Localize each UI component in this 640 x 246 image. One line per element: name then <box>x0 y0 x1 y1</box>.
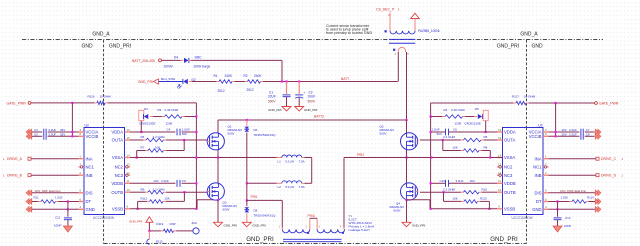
svg-text:10: 10 <box>498 188 502 192</box>
plane split border right (vertical dashed line) <box>526 40 528 244</box>
svg-text:15: 15 <box>498 136 502 140</box>
svg-text:D8: D8 <box>254 209 258 213</box>
ground GND_PRI under C1 <box>268 107 291 112</box>
wire VDDA row <box>130 131 175 133</box>
svg-text:D3: D3 <box>144 107 148 111</box>
svg-text:R3: R3 <box>158 108 162 112</box>
resistor R8 10K <box>453 146 488 153</box>
note dead time left <box>35 189 61 193</box>
svg-text:GND_PRI: GND_PRI <box>224 223 238 227</box>
svg-text:1206: 1206 <box>166 122 173 126</box>
wire R8 to PRI2 <box>482 151 491 158</box>
wire VCC drop right <box>555 103 557 136</box>
svg-text:OUTA: OUTA <box>112 138 124 143</box>
flag GND right <box>595 206 601 212</box>
svg-text:C3: C3 <box>34 128 38 132</box>
svg-text:R112: R112 <box>141 197 148 201</box>
svg-text:C11: C11 <box>55 215 61 219</box>
resistor R2 240K <box>244 74 264 92</box>
svg-text:GND_A: GND_A <box>520 32 538 38</box>
svg-text:VCCIB: VCCIB <box>529 134 542 139</box>
diode D5 C4D02120E <box>465 107 489 126</box>
transformer T1 core <box>283 239 342 241</box>
svg-text:GND: GND <box>532 207 541 212</box>
wire OUTB to R9 <box>130 191 145 193</box>
flag DIS left <box>26 190 32 196</box>
wire VDDA row right <box>431 131 497 133</box>
svg-text:L2: L2 <box>278 185 282 189</box>
wire D5 to VDDA right <box>485 121 487 132</box>
svg-text:3.3UF: 3.3UF <box>161 179 169 183</box>
svg-text:10NF: 10NF <box>564 224 572 228</box>
svg-text:1.02K: 1.02K <box>55 196 63 200</box>
resistor R6 2.2 OHM <box>141 135 167 142</box>
wire gate node D to R113 <box>444 192 462 201</box>
svg-text:PRI1: PRI1 <box>251 195 258 199</box>
svg-text:R115: R115 <box>156 240 163 244</box>
svg-text:GND_PRI: GND_PRI <box>246 236 274 243</box>
junction gate node D <box>442 191 444 193</box>
svg-text:3.3UF: 3.3UF <box>569 133 577 137</box>
capacitor C12 10NF <box>554 202 572 229</box>
wire R4 to D5 <box>465 116 477 118</box>
wire R113 to VSSB right <box>480 201 489 208</box>
svg-text:5.1UH: 5.1UH <box>286 185 295 189</box>
junction GND-C12 <box>556 208 558 210</box>
svg-text:22UF: 22UF <box>268 94 276 98</box>
svg-text:10: 10 <box>127 188 131 192</box>
wire R114 to DT flag <box>589 201 596 203</box>
svg-text:NC1: NC1 <box>86 165 95 170</box>
port DRIVE_C <box>596 157 624 161</box>
svg-text:GATE_PWR: GATE_PWR <box>599 102 619 106</box>
transformer T1 primary right pin <box>340 225 344 229</box>
transformer T1 center tap PRI3 <box>306 214 321 229</box>
junction VSSB-drop right <box>430 208 432 210</box>
junction gate node B <box>183 191 185 193</box>
svg-text:600V: 600V <box>380 131 387 135</box>
wire DRIVE_B to INB <box>31 174 79 176</box>
node GND_PRI label left <box>109 44 131 50</box>
wire PRI1 <box>247 200 282 227</box>
wire R5 to Q2 gate <box>420 139 461 141</box>
svg-text:2.2 OHM: 2.2 OHM <box>153 135 166 139</box>
transistor Q3 <box>207 183 237 211</box>
svg-text:35V: 35V <box>60 128 65 132</box>
junction VCCIB right <box>555 135 557 137</box>
port GATE_PWR left <box>7 102 31 106</box>
wire R1 to R2 <box>235 81 245 83</box>
wire D8 to ground <box>246 213 248 222</box>
junction R113-VSSB <box>488 208 490 210</box>
note current sense transformer <box>326 24 372 35</box>
svg-text:VDDA: VDDA <box>504 130 516 135</box>
junction R8-PRI2 <box>489 156 491 158</box>
wire GND_PRI flag to D2 (blue lead) <box>159 77 184 81</box>
wire CS secondary left lead <box>389 13 391 31</box>
flag VCCIA right <box>595 129 601 135</box>
junction gate node C <box>442 139 444 141</box>
plane split border left (vertical dashed line) <box>103 40 105 244</box>
junction DT-C11 <box>67 200 69 202</box>
svg-text:2.49 OHM: 2.49 OHM <box>451 108 465 112</box>
svg-text:2.2 OHM: 2.2 OHM <box>443 187 456 191</box>
wire C9 to drop <box>182 182 197 184</box>
wire flag to R119 <box>149 230 161 232</box>
svg-text:NC3: NC3 <box>504 173 513 178</box>
wire DT flag stub <box>32 201 39 203</box>
op-amp U2 gate driver IC <box>79 123 131 220</box>
wire Q4 source to ground <box>406 200 408 222</box>
svg-text:R119: R119 <box>157 222 164 226</box>
svg-text:R114: R114 <box>587 196 594 200</box>
junction GATE_PWR VCC tap left <box>71 102 73 104</box>
svg-text:600V: 600V <box>228 132 235 136</box>
svg-text:20V: 20V <box>562 133 567 137</box>
svg-text:DRIVE_A: DRIVE_A <box>7 157 23 161</box>
svg-text:C10: C10 <box>440 179 446 183</box>
svg-text:R113: R113 <box>480 197 487 201</box>
junction C1 tap <box>285 80 287 82</box>
svg-text:D4: D4 <box>174 56 178 60</box>
power flag up CS secondary right <box>411 13 420 18</box>
junction BATT2-D6 <box>246 119 248 121</box>
wire INA right <box>549 158 597 160</box>
resistor R3 2.49 OHM <box>158 108 185 125</box>
svg-text:2512: 2512 <box>218 89 225 93</box>
svg-text:DRIVE_D: DRIVE_D <box>601 174 617 178</box>
wire PRI2 row <box>344 157 503 159</box>
wire CS secondary right lead <box>414 19 416 31</box>
wire gate node C to R8 <box>443 140 461 151</box>
ground GND_PRI under C2 <box>295 107 318 112</box>
svg-text:500V: 500V <box>268 99 276 103</box>
svg-text:DRIVE_C: DRIVE_C <box>601 157 617 161</box>
svg-text:GND_PRI: GND_PRI <box>268 108 282 112</box>
junction GATE_PWR VCC tap right <box>555 102 557 104</box>
wire VSSA row left of L1 <box>218 157 277 159</box>
plane split dashes over U3 <box>526 128 528 215</box>
flag DT left <box>26 199 32 205</box>
wire VSSB up to Q3 source <box>197 200 218 209</box>
svg-text:DT: DT <box>86 199 92 204</box>
port DRIVE_D <box>596 174 624 178</box>
svg-text:11: 11 <box>498 179 501 183</box>
junction D5-VDDA <box>485 131 487 133</box>
svg-text:16: 16 <box>127 128 131 132</box>
svg-text:GND: GND <box>531 44 543 50</box>
svg-text:ZH2: ZH2 <box>192 221 198 225</box>
node GND_PRI label right <box>497 44 519 50</box>
resistor R117 10 OHM <box>512 95 536 105</box>
wire R10 to Q4 gate <box>420 191 461 193</box>
svg-text:Leakage 5.2uH: Leakage 5.2uH <box>349 228 370 232</box>
svg-text:50V: 50V <box>437 132 442 136</box>
junction BATT-D4 <box>281 80 283 82</box>
wire GATE_PWR right segment <box>431 102 514 104</box>
wire VSSB row right <box>430 208 497 210</box>
svg-text:BATT_208-405: BATT_208-405 <box>132 59 155 63</box>
wire DT right stub <box>549 201 570 203</box>
svg-text:2.2 OHM: 2.2 OHM <box>153 187 166 191</box>
flag DIS right <box>595 190 601 196</box>
wire DIS left <box>32 192 79 194</box>
svg-text:1206: 1206 <box>455 122 462 126</box>
wire R119 to jumper <box>176 230 193 232</box>
svg-text:50V: 50V <box>182 132 187 136</box>
capacitor C2 10UF polarized <box>295 82 316 107</box>
svg-text:16V: 16V <box>154 179 159 183</box>
wire CS primary right leg <box>406 52 408 120</box>
capacitor C3 3.3UF <box>32 128 79 140</box>
svg-text:INA: INA <box>535 156 542 161</box>
wire gate node B to R112 <box>166 192 185 201</box>
wire BATT to D4 <box>162 59 184 61</box>
svg-text:R1: R1 <box>214 74 218 78</box>
svg-text:UCC21520DW: UCC21520DW <box>93 216 114 220</box>
svg-text:BATT: BATT <box>341 77 349 81</box>
svg-text:14: 14 <box>127 153 131 157</box>
svg-text:from primary to control GND: from primary to control GND <box>326 31 372 35</box>
junction R4 node <box>430 115 432 117</box>
transistor Q4 <box>390 183 418 213</box>
svg-text:R10: R10 <box>482 187 488 191</box>
wire D3 to R3 <box>150 116 162 118</box>
svg-text:240K: 240K <box>225 74 233 78</box>
svg-text:10 OHM: 10 OHM <box>524 95 536 99</box>
svg-text:OUTA: OUTA <box>504 138 516 143</box>
transistor Q2 <box>380 120 418 150</box>
wire VDDB row <box>130 182 175 184</box>
svg-text:600V: 600V <box>394 209 401 213</box>
svg-text:10K: 10K <box>155 146 160 150</box>
port GATE_PWR right <box>595 102 619 106</box>
node CS_SEC_P label <box>376 8 400 18</box>
svg-text:VSSA: VSSA <box>112 155 123 160</box>
resistor R9 2.2 OHM <box>141 187 167 194</box>
svg-text:DNP: DNP <box>170 222 176 226</box>
wire D3 to VDDA <box>140 121 142 132</box>
svg-text:500V: 500V <box>308 99 316 103</box>
wire VCC drop left <box>71 103 73 136</box>
svg-text:7.5A: 7.5A <box>299 159 305 163</box>
port BATT_208-405 <box>132 59 162 63</box>
diode D6 TVS <box>245 127 277 138</box>
wire D4 to BATT node <box>188 60 282 81</box>
capacitor C9 3.3UF 16V <box>154 179 186 187</box>
svg-text:14: 14 <box>498 153 502 157</box>
junction C2 tap <box>298 80 300 82</box>
resistor R112 10K <box>141 197 170 204</box>
inductor L1 5.1UH <box>218 155 305 163</box>
wire CS primary left leg <box>397 52 399 82</box>
svg-text:DIS: DIS <box>535 190 542 195</box>
capacitor C11 10NF <box>54 202 72 228</box>
svg-text:10K: 10K <box>453 197 458 201</box>
capacitor C4 1.0UF <box>167 128 191 137</box>
svg-text:BLU_5452: BLU_5452 <box>161 77 176 81</box>
diode D8 TVS <box>245 200 277 217</box>
svg-text:10K: 10K <box>165 197 170 201</box>
svg-text:VDDB: VDDB <box>111 181 123 186</box>
svg-text:GND_PRI: GND_PRI <box>129 219 143 223</box>
resistor R4 2.49 OHM <box>442 108 465 125</box>
wire VSSB right up to Q4 source <box>407 200 431 209</box>
transformer TX1 primary winding (U loop) <box>393 47 409 56</box>
svg-text:C6: C6 <box>34 133 38 137</box>
wire drop to R4 <box>431 116 443 118</box>
svg-text:UCC21520DW: UCC21520DW <box>512 216 533 220</box>
svg-text:NC2: NC2 <box>115 165 124 170</box>
ground GND_PRI under Q3 <box>214 222 238 227</box>
junction R119 <box>148 230 150 232</box>
junction C6 node <box>430 131 432 133</box>
wire GATE_PWR drop to VSSB <box>195 103 197 209</box>
svg-text:INA: INA <box>86 156 93 161</box>
svg-text:VSSB: VSSB <box>112 206 123 211</box>
capacitor C1 22UF <box>268 82 291 107</box>
svg-text:10K: 10K <box>453 146 458 150</box>
svg-text:1.02K: 1.02K <box>561 196 569 200</box>
wire INB right <box>549 174 597 176</box>
svg-text:TRS5V540F,61Q: TRS5V540F,61Q <box>254 133 277 137</box>
junction Q4 source node <box>405 199 407 201</box>
wire GND left <box>32 208 79 210</box>
svg-text:TRS5V540F,61Q: TRS5V540F,61Q <box>254 214 277 218</box>
resistor R5 2.2 OHM <box>443 135 488 142</box>
flag GND left <box>26 206 32 212</box>
wire D6 to L2 node <box>246 133 248 201</box>
svg-text:PRI3: PRI3 <box>308 214 315 218</box>
flag VCCIA left <box>26 129 32 135</box>
wire D2 to R1 <box>189 81 217 83</box>
wire C4 to drop <box>182 131 197 133</box>
resistor R119 DNP <box>157 222 177 232</box>
svg-text:INB: INB <box>535 173 542 178</box>
GND_A plane split border (top dash-dot line) <box>22 39 603 41</box>
junction VCCIA tap <box>71 131 73 133</box>
svg-text:U2: U2 <box>85 123 89 127</box>
svg-text:C8: C8 <box>586 133 590 137</box>
svg-text:GND_PRI: GND_PRI <box>497 44 519 50</box>
note dead time right <box>560 189 586 193</box>
wire BATT2 rail <box>218 119 407 121</box>
resistor R114 1.02K <box>561 196 595 204</box>
svg-text:3.3UF: 3.3UF <box>569 128 577 132</box>
jumper ZH2 <box>192 221 200 234</box>
transformer TX1 value label <box>418 29 440 33</box>
svg-text:DIS: DIS <box>86 190 93 195</box>
diode D4 <box>164 56 211 69</box>
junction PRI1 node <box>246 199 248 201</box>
wire GATE_PWR to terminal <box>529 102 595 104</box>
svg-text:7.5A: 7.5A <box>299 185 305 189</box>
svg-text:11: 11 <box>127 179 130 183</box>
junction C4 node <box>195 131 197 133</box>
svg-text:GND_PRI: GND_PRI <box>109 44 131 50</box>
svg-text:VDDA: VDDA <box>111 130 123 135</box>
svg-text:VDDB: VDDB <box>504 181 516 186</box>
svg-text:R5: R5 <box>484 135 488 139</box>
svg-text:GND: GND <box>81 44 93 50</box>
svg-text:240K: 240K <box>254 74 262 78</box>
ground filled under C12 <box>553 226 562 232</box>
svg-text:D6: D6 <box>254 128 258 132</box>
svg-text:2.2 OHM: 2.2 OHM <box>443 135 456 139</box>
svg-text:GND_PRI: GND_PRI <box>490 236 518 243</box>
svg-text:C12: C12 <box>565 216 571 220</box>
svg-text:R2: R2 <box>244 74 248 78</box>
node BATT label <box>341 77 349 81</box>
wire Q2 source to Q4 drain <box>406 150 408 183</box>
svg-text:R117: R117 <box>512 95 519 99</box>
transistor Q1 <box>207 120 242 150</box>
wire gate node to R7 <box>166 140 184 151</box>
svg-text:R116: R116 <box>88 95 95 99</box>
svg-text:R9: R9 <box>141 187 145 191</box>
wire Q3 source to ground <box>217 200 219 222</box>
svg-text:16V: 16V <box>470 179 475 183</box>
transformer T1 primary left pin <box>279 225 283 229</box>
wire R112 to VSSB <box>138 201 147 208</box>
svg-text:BATT2: BATT2 <box>314 115 324 119</box>
wire Q1 source to Q3 drain <box>217 150 219 183</box>
junction D3-VDDA <box>140 131 142 133</box>
svg-text:R6: R6 <box>141 135 145 139</box>
node GND_A label right <box>520 32 538 38</box>
svg-text:GND_PRI: GND_PRI <box>304 108 318 112</box>
node PRI1 label <box>251 195 258 199</box>
svg-text:R4: R4 <box>444 108 448 112</box>
diode D2 photodiode <box>177 78 196 89</box>
junction Q1 source node <box>217 156 219 158</box>
wire D6 column top <box>246 120 248 126</box>
svg-text:GND_A: GND_A <box>92 32 110 38</box>
flag GND_PRI at D2 row <box>138 79 159 84</box>
wire GATE_PWR mid segment <box>108 102 197 104</box>
op-amp U3 gate driver IC <box>497 123 549 220</box>
svg-text:GND_PRI: GND_PRI <box>412 223 426 227</box>
transformer TX1 core <box>389 39 415 43</box>
port DRIVE_A <box>3 157 31 161</box>
junction VSSA-drop <box>195 156 197 158</box>
capacitor C7 3.3UF 20V <box>549 128 595 140</box>
svg-text:C4: C4 <box>167 128 171 132</box>
wire OUTA right to R5 <box>484 139 497 141</box>
wire VSSA row <box>130 157 218 159</box>
junction PRI2-rail drop <box>430 156 432 158</box>
svg-text:U3: U3 <box>538 123 542 127</box>
svg-text:15: 15 <box>127 136 131 140</box>
svg-text:R7: R7 <box>141 146 145 150</box>
wire VSSB row <box>130 208 197 210</box>
node GND_PRI big label bottom-right <box>490 236 518 243</box>
svg-text:2.49 OHM: 2.49 OHM <box>165 108 179 112</box>
svg-text:PRI2: PRI2 <box>357 153 364 157</box>
svg-text:VSSA: VSSA <box>504 155 515 160</box>
junction R112-VSSB <box>137 208 139 210</box>
wire VDDB row right <box>431 182 497 184</box>
junction L2-TVS node <box>246 182 248 184</box>
capacitor C8 3.3UF 20V <box>549 133 595 137</box>
svg-text:10UF: 10UF <box>308 94 316 98</box>
svg-text:1000V: 1000V <box>164 65 174 69</box>
wire GND_PRI stem down <box>147 231 163 245</box>
wire L1 right to L2 right <box>304 158 311 184</box>
plane split dashes over U2 <box>103 128 105 215</box>
svg-text:SMC: SMC <box>195 56 203 60</box>
junction GND-C11 <box>67 208 69 210</box>
